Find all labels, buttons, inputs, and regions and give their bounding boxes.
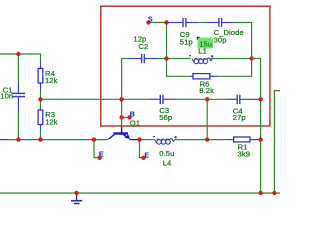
- junction dot C1-rail3: [16, 137, 20, 141]
- wire R4 to rail2: [40, 91, 42, 99]
- resistor R1: [227, 137, 261, 142]
- wire junction to right vertical: [252, 59, 261, 100]
- wire B branch: [121, 99, 123, 117]
- junction dot right-rail4: [258, 191, 262, 195]
- wire rail2: [41, 98, 226, 100]
- junction dot R1-right: [258, 137, 262, 141]
- svg-text:27p: 27p: [233, 113, 246, 122]
- svg-text:B: B: [130, 111, 135, 118]
- svg-text:10n: 10n: [0, 92, 13, 101]
- junction dot ground: [74, 191, 78, 195]
- svg-text:12k: 12k: [45, 76, 58, 85]
- svg-text:C2: C2: [138, 42, 148, 51]
- svg-text:Q1: Q1: [130, 119, 140, 128]
- junction dot L4-x207: [205, 137, 209, 141]
- junction dot C1-rail1: [16, 52, 20, 56]
- capacitor C1: [12, 82, 25, 112]
- capacitor C3: [149, 95, 176, 104]
- wire rail1 top-left: [0, 54, 41, 62]
- junction dot rail2-right: [258, 97, 262, 101]
- resistor R3: [38, 99, 43, 130]
- junction dot farright-rail4: [272, 191, 276, 195]
- wire C2 branch vertical: [122, 59, 129, 100]
- wire C_Diode corner down: [233, 23, 252, 59]
- junction dot R3-rail3: [38, 137, 42, 141]
- capacitor C9: [169, 18, 199, 27]
- svg-text:56p: 56p: [159, 113, 172, 122]
- svg-text:0.5u: 0.5u: [159, 149, 174, 158]
- wire ground rail: [0, 192, 280, 194]
- selection handle black square: [197, 37, 200, 40]
- transistor Q1: [109, 127, 140, 140]
- node B stub: [122, 117, 130, 119]
- svg-text:3k9: 3k9: [238, 150, 250, 159]
- wire rail3: [0, 139, 227, 141]
- svg-text:S: S: [148, 17, 153, 24]
- wire C1 lower: [17, 112, 19, 140]
- wire base: [121, 118, 123, 128]
- wire C2 to S junction: [157, 58, 167, 60]
- svg-text:E: E: [99, 152, 104, 159]
- inductor L4: [153, 136, 177, 144]
- svg-text:8.2k: 8.2k: [199, 86, 214, 95]
- svg-text:51p: 51p: [180, 37, 193, 46]
- resistor R6: [190, 74, 217, 79]
- svg-text:E: E: [144, 152, 149, 159]
- node E stub 2: [140, 140, 144, 158]
- resistor R4: [38, 62, 43, 91]
- svg-text:12k: 12k: [45, 118, 58, 127]
- junction dot emitter: [137, 137, 141, 141]
- wire R6 right up to junction: [217, 59, 252, 77]
- wire R3 to rail3: [40, 130, 42, 140]
- svg-text:30p: 30p: [214, 36, 227, 45]
- svg-text:L1: L1: [198, 46, 207, 55]
- junction dot C2 row: [164, 56, 168, 60]
- junction dot C2-rail2: [119, 97, 123, 101]
- wire right vertical lower: [260, 99, 262, 193]
- wire between C9 and C_Diode: [198, 22, 207, 24]
- capacitor C2: [129, 54, 157, 63]
- highlighted value 15u: [198, 38, 213, 49]
- wire C1 upper: [17, 54, 19, 82]
- inductor L1: [189, 55, 214, 64]
- junction dot R6-C_Diode: [249, 56, 253, 60]
- wire junction to R6 row: [167, 59, 191, 77]
- junction dot S-C9: [164, 20, 168, 24]
- ground: [71, 193, 82, 204]
- wire far-right branch: [274, 91, 280, 193]
- junction dot R4-rail2: [38, 97, 42, 101]
- junction dot collector: [92, 137, 96, 141]
- wire L1 to corner: [211, 58, 252, 60]
- node S stub: [149, 22, 167, 24]
- node E stub 1: [94, 140, 99, 158]
- wire S junction to L1: [167, 58, 191, 60]
- wire S junction vertical: [166, 23, 168, 59]
- capacitor C_Diode: [207, 18, 234, 27]
- capacitor C4: [226, 95, 261, 104]
- junction dot rail2-x207: [205, 97, 209, 101]
- wire x207 vertical: [206, 99, 208, 139]
- red net wire rectangle: [101, 6, 270, 126]
- svg-text:L4: L4: [163, 159, 172, 168]
